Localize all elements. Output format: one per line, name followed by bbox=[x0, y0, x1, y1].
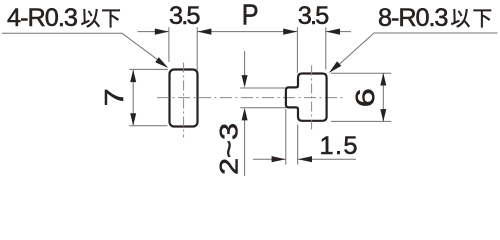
leader arrow 4-R0.3 bbox=[155, 57, 168, 68]
arrow 7 down bbox=[130, 113, 136, 126]
extension line right-3.5 b bbox=[325, 27, 327, 69]
svg-text:1.5: 1.5 bbox=[320, 132, 358, 160]
arrow 6 up bbox=[380, 73, 386, 86]
ext line 2~3 bottom bbox=[240, 107, 286, 109]
ext line 1.5 right bbox=[297, 125, 299, 165]
arrow 7 up bbox=[130, 70, 136, 83]
arrow 1.5 into left bbox=[272, 156, 286, 162]
leader arrow 8-R0.3 bbox=[329, 61, 342, 73]
ext line 7 top bbox=[129, 68, 168, 70]
dim line 1.5 right seg bbox=[298, 158, 356, 160]
svg-text:3.5: 3.5 bbox=[169, 2, 201, 30]
extension line left-3.5 b bbox=[196, 27, 198, 70]
svg-text:8-R0.3: 8-R0.3 bbox=[378, 4, 449, 32]
dim line P bbox=[197, 31, 297, 33]
svg-text:6: 6 bbox=[352, 88, 380, 107]
horizontal centerline bbox=[157, 97, 346, 99]
dim line right of right 3.5 bbox=[326, 31, 351, 33]
arrow 6 down bbox=[380, 109, 386, 122]
dim line 2~3 upper bbox=[244, 51, 246, 80]
label 下 (left) bbox=[102, 9, 120, 27]
dim line left of left 3.5 bbox=[138, 31, 169, 33]
arrow into left ext of right 3.5 bbox=[283, 29, 297, 35]
leader line 8-R0.3 bbox=[336, 33, 498, 67]
label 下 (right) bbox=[473, 9, 491, 27]
arrow 2~3 up bbox=[242, 108, 248, 121]
label 以 (left) bbox=[81, 9, 100, 28]
arrow into left ext of left 3.5 bbox=[155, 29, 169, 35]
ext line 6 top bbox=[331, 72, 391, 74]
extension line right-3.5 a bbox=[296, 27, 298, 73]
arrow 2~3 down bbox=[242, 75, 248, 88]
svg-text:3.5: 3.5 bbox=[298, 2, 330, 30]
extension line left-3.5 a bbox=[168, 27, 170, 62]
dim line 6 bbox=[382, 74, 384, 121]
left slot outline bbox=[170, 70, 198, 127]
svg-text:4-R0.3: 4-R0.3 bbox=[7, 4, 78, 32]
right profile outline bbox=[286, 74, 327, 121]
ext line 2~3 top bbox=[240, 87, 286, 89]
arrow 1.5 into right bbox=[298, 156, 312, 162]
ext line 1.5 left bbox=[285, 109, 287, 165]
dim line 1.5 left seg bbox=[253, 158, 286, 160]
left slot vertical centerline bbox=[183, 63, 185, 138]
svg-text:P: P bbox=[242, 0, 259, 31]
ext line 6 bottom bbox=[331, 120, 391, 122]
arrow into right ext of right 3.5 bbox=[326, 29, 340, 35]
ext line 7 bottom bbox=[129, 125, 167, 127]
arrow into right ext of left 3.5 bbox=[197, 29, 211, 35]
right profile vertical centerline bbox=[311, 66, 313, 131]
svg-text:7: 7 bbox=[99, 88, 129, 106]
leader line 4-R0.3 bbox=[2, 33, 161, 62]
label 以 (right) bbox=[451, 9, 470, 28]
dim line 2~3 lower bbox=[244, 115, 246, 176]
dim line 7 bbox=[132, 70, 134, 125]
svg-text:2~3: 2~3 bbox=[215, 123, 243, 175]
